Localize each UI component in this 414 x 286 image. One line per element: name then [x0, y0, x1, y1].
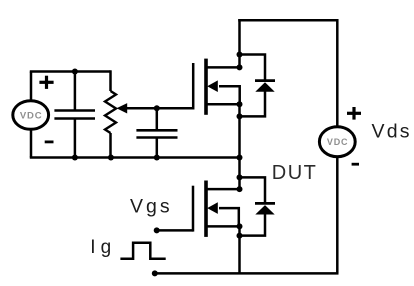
- wire top rail right: [238, 19, 337, 22]
- wire right rail lower: [336, 155, 339, 273]
- wire wiper to gate of Q1: [127, 107, 194, 110]
- transistor Q1 source stub: [207, 103, 240, 106]
- node D2 anode tap: [237, 233, 243, 239]
- wire C2 bottom lead: [156, 138, 159, 158]
- wire main line bottom: [238, 226, 241, 273]
- node C1 top junction: [72, 69, 78, 75]
- transistor Q1 drain stub: [207, 66, 240, 69]
- node Q2 source: [237, 223, 243, 229]
- diode D2 cathode bar: [255, 202, 275, 205]
- transistor Q2 body arrow: [207, 202, 218, 214]
- transistor Q1 body arrow: [207, 80, 218, 92]
- node Q1 drain: [237, 64, 243, 70]
- node Q1 source: [237, 101, 243, 107]
- node C1 bottom junction: [72, 155, 78, 161]
- node C2 bottom junction: [154, 155, 160, 161]
- transistor Q2 body stub: [219, 208, 239, 226]
- svg-text:VDC: VDC: [327, 137, 348, 147]
- diode D1 branch wires: [240, 55, 266, 117]
- diode D1 triangle: [255, 82, 274, 92]
- transistor Q1 channel bar: [204, 59, 208, 115]
- svg-text:DUT: DUT: [272, 162, 318, 184]
- node Q2 drain: [237, 186, 243, 192]
- node D1 cathode tap: [237, 52, 243, 58]
- wire right rail upper: [336, 19, 339, 128]
- transistor Q1 gate bar: [192, 63, 195, 110]
- diode D2 branch wires: [240, 177, 266, 235]
- polarity plus of V1: [39, 76, 53, 89]
- wire left bottom rail: [30, 156, 240, 159]
- capacitor C1: [54, 111, 95, 119]
- terminal node Vgs: [154, 227, 160, 233]
- transistor Q1 body stub: [219, 86, 240, 104]
- transistor Q2 gate bar: [192, 186, 195, 232]
- transistor Q2 source stub: [207, 225, 240, 228]
- svg-text:VDC: VDC: [20, 110, 43, 121]
- wire C1 top lead: [74, 72, 77, 111]
- diode D2 triangle: [255, 205, 274, 214]
- potentiometer R1 zigzag: [105, 91, 116, 133]
- wire left top rail: [30, 70, 111, 73]
- wire bottom return: [155, 272, 339, 275]
- wire V1 top lead: [30, 72, 33, 102]
- node R1 bottom junction: [108, 155, 114, 161]
- polarity minus of V1: [45, 141, 54, 144]
- wire R1 top lead: [109, 70, 112, 91]
- transistor Q2 drain stub: [207, 188, 240, 191]
- voltage source V1 (left VDC): [13, 101, 49, 130]
- pulse symbol Ig waveform: [120, 243, 165, 259]
- terminal node source return: [152, 270, 158, 276]
- polarity minus of V2: [352, 163, 359, 166]
- node C2 tap junction: [154, 105, 160, 111]
- wire main line mid: [238, 104, 241, 189]
- wire Vgs terminal to Q2 gate: [157, 229, 193, 232]
- wiper arrow of R1: [117, 103, 128, 113]
- node D2 cathode tap: [237, 174, 243, 180]
- wire R1 bottom lead: [109, 133, 112, 158]
- capacitor C2: [136, 130, 177, 137]
- polarity plus of V2: [347, 107, 361, 120]
- transistor Q2 channel bar: [204, 181, 208, 237]
- wire C2 top lead: [156, 108, 159, 130]
- svg-text:Vds: Vds: [372, 121, 412, 143]
- wire C1 bottom lead: [74, 119, 77, 158]
- svg-text:Vgs: Vgs: [130, 195, 173, 217]
- svg-text:Ig: Ig: [90, 237, 116, 258]
- node D1 anode tap: [237, 113, 243, 119]
- voltage source V2 (right VDC): [319, 127, 355, 157]
- wire V1 bottom lead: [30, 129, 33, 158]
- node mid rail joins main line: [237, 155, 243, 161]
- wire main line top: [238, 19, 241, 67]
- diode D1 cathode bar: [255, 79, 275, 82]
